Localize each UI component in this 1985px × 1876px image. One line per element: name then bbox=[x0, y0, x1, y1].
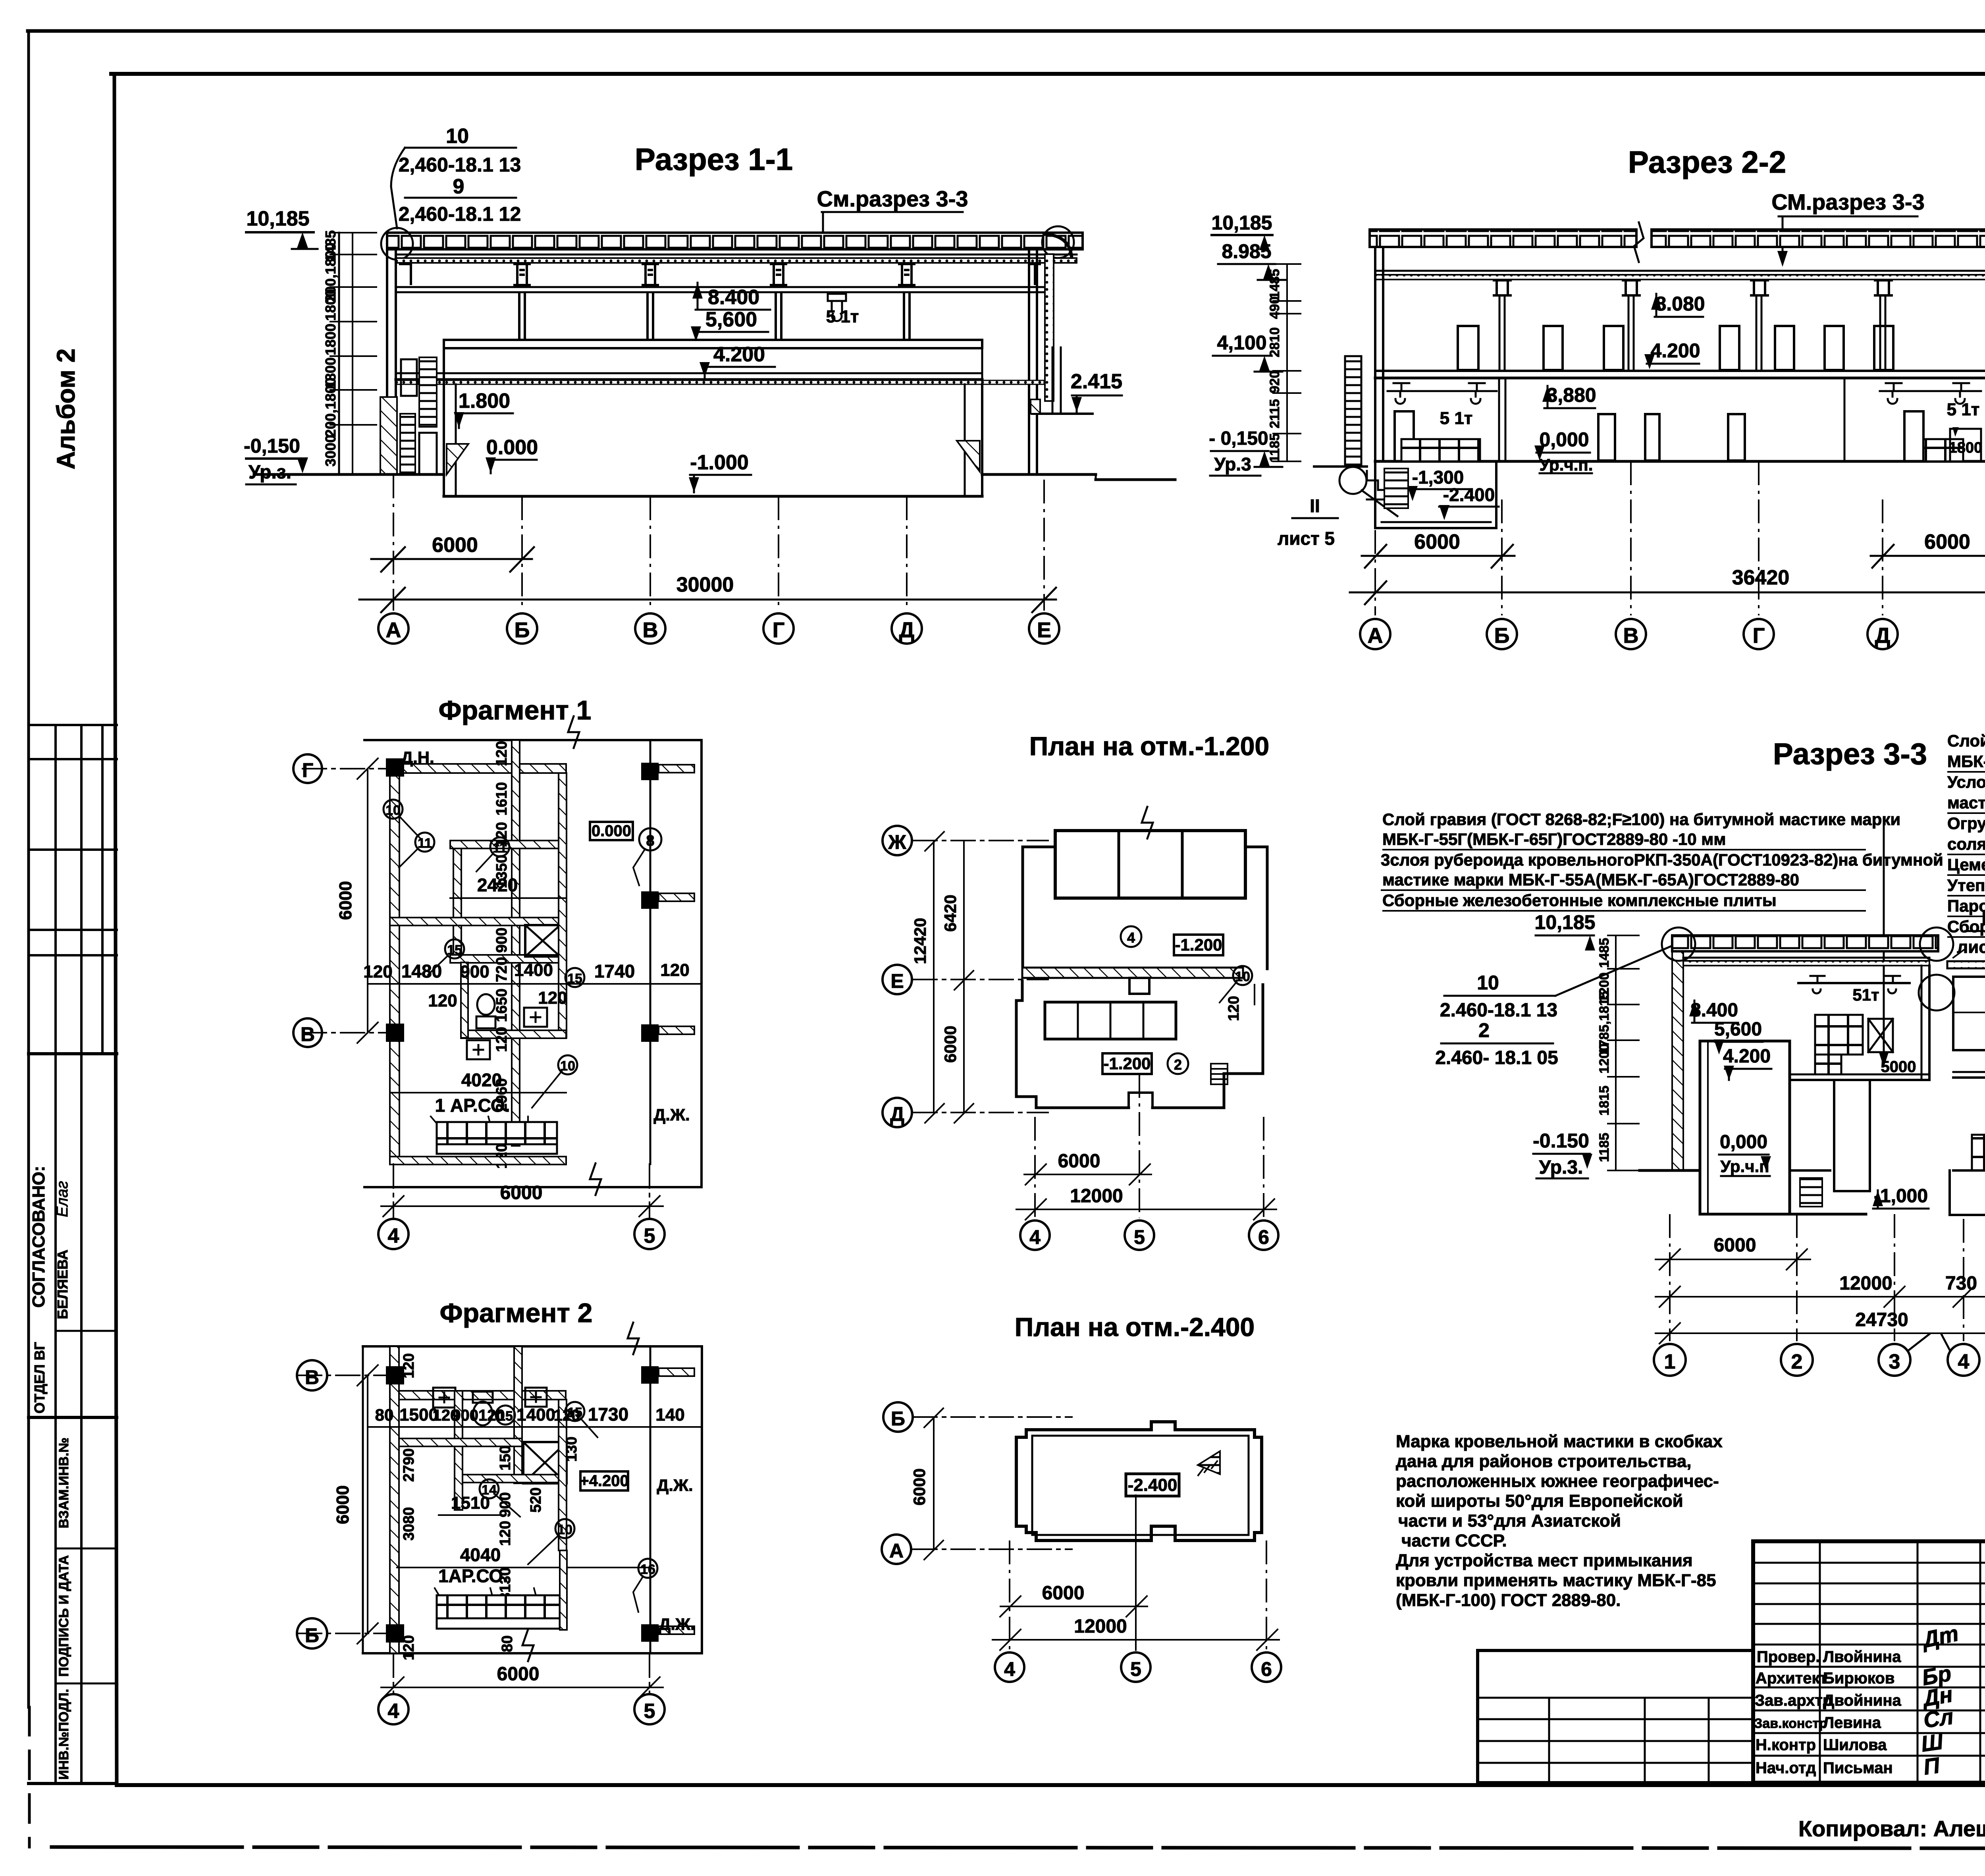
callout circle 11 b bbox=[490, 837, 509, 856]
interior columns bbox=[519, 292, 910, 341]
svg-text:2,460-18.1 13: 2,460-18.1 13 bbox=[399, 154, 521, 176]
crane rail right bay bbox=[1880, 383, 1981, 404]
svg-text:Сл: Сл bbox=[1922, 1704, 1955, 1733]
svg-text:3080: 3080 bbox=[401, 1507, 417, 1541]
axis E bbox=[913, 979, 1048, 980]
stair hatch symbol bbox=[1198, 1451, 1220, 1474]
upper storey columns at grid lines bbox=[1499, 296, 1885, 371]
svg-text:15: 15 bbox=[498, 1409, 513, 1424]
grid circle 1 bbox=[1654, 1344, 1686, 1376]
svg-text:2.415: 2.415 bbox=[1071, 370, 1122, 393]
platform 2.415 bbox=[1032, 413, 1093, 415]
framed label -1.200 upper bbox=[1174, 935, 1223, 955]
rotated dims left bbox=[401, 1353, 580, 1660]
svg-text:1350: 1350 bbox=[493, 855, 510, 889]
svg-text:0,000: 0,000 bbox=[1720, 1132, 1767, 1153]
vertical dim chain 12420 bbox=[933, 841, 935, 1112]
svg-text:Ш: Ш bbox=[1919, 1729, 1945, 1756]
svg-text:Д: Д bbox=[1875, 624, 1890, 648]
svg-text:4: 4 bbox=[388, 1700, 399, 1723]
svg-text:Б: Б bbox=[305, 1624, 319, 1647]
svg-text:Б: Б bbox=[515, 618, 530, 642]
svg-text:1800: 1800 bbox=[322, 289, 339, 321]
svg-text:150: 150 bbox=[497, 1445, 514, 1470]
svg-text:соляровом масле: соляровом масле bbox=[1947, 835, 1985, 853]
svg-text:Д.Н.: Д.Н. bbox=[401, 748, 434, 767]
svg-text:3: 3 bbox=[1889, 1350, 1900, 1373]
ground line left bbox=[254, 473, 444, 476]
callout circle 15 a bbox=[445, 939, 464, 958]
F2 bbox=[297, 1298, 702, 1724]
svg-text:6000: 6000 bbox=[497, 1664, 540, 1685]
svg-text:3,880: 3,880 bbox=[1546, 384, 1596, 406]
grid circle A bbox=[1360, 619, 1390, 649]
svg-text:2.460-18.1 13: 2.460-18.1 13 bbox=[1440, 1000, 1557, 1021]
grid circle 5 bbox=[634, 1219, 665, 1249]
detail circle II bbox=[1339, 467, 1366, 494]
svg-text:6000: 6000 bbox=[1714, 1235, 1756, 1256]
grid circle 5 bbox=[634, 1694, 665, 1724]
grid circle 4 bbox=[1020, 1220, 1050, 1250]
main horizontal dim line bbox=[368, 983, 701, 985]
wall stubs right bbox=[659, 765, 694, 773]
svg-text:8.400: 8.400 bbox=[708, 286, 759, 309]
svg-text:490: 490 bbox=[1267, 297, 1282, 319]
right column line bbox=[649, 1346, 651, 1653]
sink 2 bbox=[467, 1040, 490, 1059]
left vertical dim bbox=[367, 1375, 368, 1633]
svg-text:15: 15 bbox=[447, 943, 462, 958]
svg-text:-1.200: -1.200 bbox=[1175, 935, 1222, 954]
ceiling line hall bbox=[1683, 957, 1929, 959]
svg-text:2,460-18.1 12: 2,460-18.1 12 bbox=[399, 203, 521, 225]
svg-text:5: 5 bbox=[1134, 1226, 1145, 1248]
axis V line bbox=[298, 1375, 401, 1376]
svg-text:Пароизоляция-обмазка горячим б: Пароизоляция-обмазка горячим битумом за … bbox=[1947, 897, 1985, 915]
svg-text:5: 5 bbox=[1130, 1658, 1141, 1680]
TITLEBLOCK bbox=[1478, 1541, 1985, 1843]
svg-text:30000: 30000 bbox=[676, 573, 734, 596]
grid circle G bbox=[1744, 619, 1774, 649]
left dim chain bbox=[338, 233, 340, 474]
svg-text:Утеплитель-пенобетону=300 кг/м: Утеплитель-пенобетону=300 кг/м3-100 мм bbox=[1947, 876, 1985, 895]
svg-text:8.080: 8.080 bbox=[1655, 293, 1705, 315]
right wall dotted strip bbox=[1045, 254, 1054, 401]
callout circle 10 b bbox=[558, 1055, 577, 1074]
right hall boundary column bbox=[1928, 966, 1931, 1080]
framed label -1.200 lower bbox=[1102, 1053, 1152, 1074]
svg-text:Ур.ч.п.: Ур.ч.п. bbox=[1540, 455, 1593, 474]
svg-text:0.000: 0.000 bbox=[486, 436, 538, 459]
svg-text:Н.контр: Н.контр bbox=[1756, 1736, 1816, 1754]
svg-text:-1.200: -1.200 bbox=[1103, 1054, 1151, 1073]
svg-text:12420: 12420 bbox=[911, 918, 929, 964]
callout circle 4 room bbox=[1121, 926, 1141, 947]
ground line right bbox=[982, 473, 1096, 476]
partition vertical mid bbox=[514, 1346, 522, 1483]
grid axis dash-dot lines bbox=[393, 474, 1044, 611]
vertical dim labels along partition bbox=[493, 741, 510, 1168]
central tank tall bbox=[1700, 1041, 1790, 1214]
svg-text:Б: Б bbox=[891, 1407, 905, 1430]
left wall A bbox=[1374, 247, 1376, 461]
svg-text:МБК-Г-55Г(МБК-Г-65Г)ГОСТ2889-8: МБК-Г-55Г(МБК-Г-65Г)ГОСТ2889-80 -10 мм bbox=[1382, 830, 1726, 848]
svg-text:6000: 6000 bbox=[432, 534, 478, 557]
svg-text:140: 140 bbox=[655, 1405, 684, 1425]
svg-text:6000: 6000 bbox=[500, 1182, 543, 1203]
svg-text:Сборные железобетонные плиты: Сборные железобетонные плиты bbox=[1947, 917, 1985, 936]
left roof note text block bbox=[1381, 810, 1943, 910]
ground floor doors bbox=[1598, 414, 1745, 461]
inner frame left bbox=[114, 74, 117, 1785]
svg-text:Е: Е bbox=[1037, 618, 1051, 642]
svg-text:В: В bbox=[1623, 624, 1639, 648]
axis G line bbox=[303, 768, 401, 769]
plan cut boundary right bbox=[700, 740, 703, 1187]
svg-text:2: 2 bbox=[1478, 1019, 1490, 1041]
grid circle G bbox=[293, 754, 322, 783]
top wall hatched bbox=[399, 1391, 566, 1400]
wc wall bbox=[455, 1391, 463, 1510]
framed label +4.200 bbox=[580, 1471, 628, 1490]
svg-text:Е: Е bbox=[890, 970, 904, 992]
svg-text:Д: Д bbox=[899, 618, 914, 642]
ceiling double line bbox=[1375, 270, 1985, 272]
svg-text:16: 16 bbox=[640, 1562, 655, 1577]
svg-text:5 1т: 5 1т bbox=[1440, 409, 1473, 428]
tank inner wall lines bbox=[1707, 1041, 1709, 1214]
svg-text:12000: 12000 bbox=[1074, 1616, 1127, 1637]
svg-text:4: 4 bbox=[1127, 929, 1135, 946]
left stair block bbox=[400, 414, 415, 475]
grid circle V bbox=[1616, 619, 1646, 649]
svg-text:12000: 12000 bbox=[1070, 1186, 1123, 1207]
svg-text:900: 900 bbox=[497, 1492, 514, 1517]
svg-text:расположенных южнее географи: расположенных южнее географичес- bbox=[1396, 1471, 1719, 1491]
heat exchanger grid right bbox=[1923, 439, 1963, 461]
basin bottom bbox=[444, 495, 982, 498]
svg-text:План на отм.-2.400: План на отм.-2.400 bbox=[1015, 1312, 1255, 1342]
svg-text:6000: 6000 bbox=[336, 881, 355, 920]
partition under shaft bbox=[450, 955, 566, 963]
upper hall outline bbox=[1023, 847, 1267, 969]
lower hall outline bbox=[1016, 981, 1263, 1108]
svg-text:120: 120 bbox=[428, 991, 457, 1010]
outside stair tower left bbox=[1345, 356, 1361, 467]
svg-text:6000: 6000 bbox=[910, 1468, 929, 1505]
svg-text:3000: 3000 bbox=[322, 435, 339, 467]
svg-text:2: 2 bbox=[1174, 1057, 1182, 1073]
svg-text:Двойнина: Двойнина bbox=[1823, 1692, 1901, 1709]
svg-text:2810: 2810 bbox=[1267, 327, 1282, 357]
svg-text:БЕЛЯЕВА: БЕЛЯЕВА bbox=[54, 1249, 71, 1319]
S33 bbox=[1381, 731, 1985, 1376]
svg-text:План на отм.-1.200: План на отм.-1.200 bbox=[1029, 731, 1269, 761]
grid circle 5 bbox=[1121, 1652, 1151, 1682]
right wall column E bbox=[1028, 249, 1030, 474]
svg-text:1740: 1740 bbox=[594, 961, 635, 981]
svg-text:1485: 1485 bbox=[1267, 269, 1282, 299]
svg-text:Сборные железобетонные комплек: Сборные железобетонные комплексные плиты bbox=[1382, 891, 1777, 910]
grid circle 4 bbox=[378, 1219, 409, 1249]
vertical dim 6000 bbox=[933, 1417, 935, 1549]
plan cut boundary right bbox=[701, 1346, 703, 1653]
central partition wall bbox=[512, 740, 520, 841]
partial wall right of radiators bbox=[560, 1550, 567, 1630]
radiator grid low bldg bbox=[1972, 1135, 1985, 1170]
diagonal braces right of grid bbox=[1868, 1019, 1893, 1052]
left vertical dim bbox=[367, 769, 368, 1033]
svg-text:1.800: 1.800 bbox=[459, 389, 510, 413]
axis B bbox=[913, 1416, 1072, 1418]
svg-text:- 0,150: - 0,150 bbox=[1209, 428, 1268, 449]
floor 4.200 double line bbox=[1375, 370, 1985, 372]
left wall bbox=[386, 234, 388, 474]
svg-text:0,000: 0,000 bbox=[1539, 428, 1589, 451]
callout circle 10 bbox=[384, 800, 403, 819]
ceiling double line bbox=[396, 254, 1077, 256]
grid circle 4 bbox=[995, 1652, 1024, 1682]
axes dash-dot bbox=[1670, 1214, 1985, 1341]
outer border bottom bbox=[52, 1847, 1985, 1849]
svg-text:Д.Ж.: Д.Ж. bbox=[657, 1476, 693, 1494]
svg-text:4.200: 4.200 bbox=[1650, 339, 1700, 362]
axis V line bbox=[303, 1032, 401, 1033]
top towers block bbox=[1055, 831, 1245, 898]
tank outline inner bbox=[1032, 1436, 1249, 1535]
axis verticals bbox=[1010, 1541, 1266, 1650]
svg-text:1650: 1650 bbox=[493, 989, 510, 1022]
svg-text:6000: 6000 bbox=[1058, 1151, 1100, 1172]
svg-text:4: 4 bbox=[1004, 1658, 1015, 1680]
svg-text:Фрагмент 1: Фрагмент 1 bbox=[439, 695, 592, 725]
svg-text:10: 10 bbox=[446, 125, 469, 148]
mid floor low bldg bbox=[1953, 1071, 1985, 1073]
svg-text:1АР.СО.: 1АР.СО. bbox=[438, 1566, 508, 1586]
svg-text:Ур.3.: Ур.3. bbox=[1539, 1157, 1583, 1178]
svg-text:5 1т: 5 1т bbox=[826, 307, 859, 326]
plan cut boundary top bbox=[364, 739, 701, 741]
top wall hatched bbox=[399, 764, 566, 773]
axis Zh bbox=[913, 840, 1048, 841]
small door box on wall bbox=[1129, 978, 1149, 994]
svg-text:120: 120 bbox=[538, 988, 567, 1008]
svg-text:1815: 1815 bbox=[1597, 1085, 1612, 1116]
svg-text:Г: Г bbox=[1753, 624, 1765, 648]
svg-text:10,185: 10,185 bbox=[1535, 911, 1596, 933]
svg-text:2: 2 bbox=[1791, 1350, 1803, 1373]
right column line with squares bbox=[649, 740, 651, 1164]
svg-text:2790: 2790 bbox=[401, 1448, 417, 1482]
lower hall bottom notch bbox=[1129, 1093, 1152, 1108]
svg-text:Зав.констр: Зав.констр bbox=[1754, 1716, 1827, 1731]
svg-text:130: 130 bbox=[563, 1436, 580, 1461]
svg-text:Огрунтовка раствором битума пя: Огрунтовка раствором битума пятой марки … bbox=[1947, 814, 1985, 833]
truss posts bbox=[399, 264, 1041, 285]
top-left column bbox=[386, 758, 404, 777]
svg-text:1800: 1800 bbox=[1949, 440, 1983, 456]
left columns bbox=[386, 1366, 404, 1384]
grid circle B bbox=[1487, 619, 1517, 649]
main hall left wall hatched bbox=[1672, 946, 1683, 1170]
svg-text:Г: Г bbox=[302, 759, 313, 781]
ventilation shaft with X bbox=[525, 925, 560, 956]
callout circle 8 bbox=[639, 828, 661, 850]
svg-text:1730: 1730 bbox=[588, 1404, 628, 1425]
svg-text:Ур.з.: Ур.з. bbox=[249, 462, 291, 483]
toilet bbox=[473, 1392, 493, 1403]
axes 4 and 5 verticals bbox=[393, 1653, 394, 1692]
left wall hatched bbox=[390, 1346, 399, 1653]
P24 bbox=[882, 1312, 1281, 1682]
grid circle V bbox=[293, 1018, 322, 1047]
svg-text:II: II bbox=[1310, 496, 1320, 516]
svg-text:1800: 1800 bbox=[322, 324, 339, 355]
svg-text:5,600: 5,600 bbox=[705, 308, 757, 331]
floor 0.000 line bbox=[1375, 460, 1985, 463]
svg-text:В: В bbox=[301, 1023, 315, 1045]
F1 bbox=[293, 695, 701, 1249]
svg-text:Провер.: Провер. bbox=[1757, 1648, 1820, 1666]
svg-text:5,600: 5,600 bbox=[1714, 1019, 1762, 1040]
svg-text:4020: 4020 bbox=[461, 1070, 502, 1090]
svg-text:части СССР.: части СССР. bbox=[1401, 1531, 1507, 1550]
svg-text:120: 120 bbox=[660, 960, 689, 980]
svg-text:5000: 5000 bbox=[1881, 1058, 1916, 1076]
plan cut boundary bottom bbox=[363, 1652, 702, 1654]
grid circle 6 bbox=[1252, 1652, 1281, 1682]
svg-text:кровли применять мастику МБК-Г: кровли применять мастику МБК-Г-85 bbox=[1396, 1571, 1716, 1590]
leader line to eaves bbox=[1555, 946, 1672, 996]
outer border left bbox=[27, 31, 30, 1707]
svg-text:120: 120 bbox=[493, 1027, 510, 1052]
svg-text:Нач.отд: Нач.отд bbox=[1756, 1759, 1816, 1777]
equipment right bay: tall unit bbox=[1904, 411, 1923, 461]
sidebar table verticals bbox=[54, 725, 57, 1783]
svg-text:2.460- 18.1 05: 2.460- 18.1 05 bbox=[1435, 1047, 1558, 1068]
crane hook 5 1t bbox=[828, 294, 846, 321]
svg-text:1400: 1400 bbox=[516, 1405, 555, 1425]
brick grid block upper bbox=[1815, 1015, 1863, 1055]
svg-text:Д.Ж.: Д.Ж. bbox=[659, 1615, 695, 1633]
inner cells block bbox=[1045, 1002, 1176, 1039]
callout circle 15 a bbox=[496, 1406, 515, 1425]
basin rim top bbox=[444, 340, 982, 348]
svg-text:мастике марки МБК-Г-55А(МБК-Г-: мастике марки МБК-Г-55А(МБК-Г-65А) ГОСТ2… bbox=[1947, 793, 1985, 812]
callout circle 11 a bbox=[415, 833, 434, 852]
svg-text:Марка кровельной мастики в ск: Марка кровельной мастики в скобках bbox=[1396, 1432, 1723, 1451]
svg-text:-1.000: -1.000 bbox=[690, 451, 748, 474]
eaves circle left bbox=[1662, 927, 1695, 961]
left auxiliary table bbox=[1478, 1650, 1753, 1783]
inner frame top bbox=[111, 72, 1985, 76]
svg-text:МБК-Г-55Г(МБК-Г-65Г)ГОСТ2889-8: МБК-Г-55Г(МБК-Г-65Г)ГОСТ2889-80-10 мм bbox=[1947, 752, 1985, 771]
wc enclosure walls bbox=[461, 962, 468, 1038]
framed label 0.000 bbox=[590, 822, 633, 840]
svg-text:11: 11 bbox=[418, 836, 432, 851]
vertical dim chain 6420/6000 bbox=[963, 841, 965, 1112]
outer border top bbox=[28, 29, 1985, 33]
grid circle 4 bbox=[1948, 1344, 1979, 1376]
callout circle 2 room bbox=[1168, 1053, 1188, 1074]
svg-text:0.000: 0.000 bbox=[592, 822, 631, 840]
roof break marks bbox=[1634, 222, 1644, 262]
sidebar table horizontals bbox=[29, 724, 117, 726]
svg-text:520: 520 bbox=[528, 1487, 544, 1512]
note leader verticals bbox=[1883, 818, 1885, 1056]
svg-text:8.985: 8.985 bbox=[1222, 240, 1271, 262]
svg-text:-0,150: -0,150 bbox=[244, 435, 300, 457]
svg-text:1610: 1610 bbox=[493, 782, 510, 816]
right corridor wall bbox=[559, 773, 567, 1038]
callout circle 10 at wall end bbox=[1233, 966, 1252, 985]
axes dash-dot to circles bbox=[1375, 461, 1985, 615]
svg-text:В: В bbox=[305, 1366, 319, 1388]
svg-text:Ур.ч.п: Ур.ч.п bbox=[1720, 1157, 1769, 1176]
basin walls bbox=[443, 348, 445, 496]
svg-text:1200: 1200 bbox=[1597, 1043, 1612, 1074]
svg-text:120: 120 bbox=[1226, 996, 1242, 1021]
grid circle V bbox=[297, 1360, 327, 1390]
svg-text:6000: 6000 bbox=[1042, 1583, 1085, 1604]
svg-text:Ж: Ж bbox=[888, 831, 906, 853]
basement stair bbox=[1384, 469, 1408, 508]
callout circle 10 bbox=[555, 1519, 574, 1538]
svg-text:лист 5: лист 5 bbox=[1278, 528, 1335, 549]
NOTE bbox=[1396, 1432, 1723, 1610]
svg-text:900: 900 bbox=[460, 962, 489, 981]
svg-text:Шилова: Шилова bbox=[1823, 1736, 1887, 1754]
grid circle 3 bbox=[1879, 1344, 1910, 1376]
svg-text:1: 1 bbox=[1664, 1350, 1676, 1373]
svg-text:920: 920 bbox=[1267, 371, 1282, 393]
svg-text:Д: Д bbox=[890, 1103, 904, 1125]
svg-text:1485: 1485 bbox=[1597, 938, 1612, 968]
svg-text:6: 6 bbox=[1258, 1226, 1269, 1248]
stair symbol bbox=[1211, 1064, 1228, 1084]
hatched wall on axis E bbox=[1022, 968, 1243, 978]
crane beam in hall bbox=[1798, 982, 1910, 984]
svg-text:4: 4 bbox=[1958, 1350, 1970, 1373]
grid circle G bbox=[763, 613, 794, 644]
svg-text:Зав.архтр: Зав.архтр bbox=[1755, 1692, 1832, 1709]
hatched wedge right bbox=[957, 441, 980, 472]
bottom wall hatched bbox=[390, 1157, 566, 1165]
inner frame bottom bbox=[117, 1783, 1985, 1787]
bottom notch bbox=[1151, 1526, 1175, 1541]
svg-text:6000: 6000 bbox=[1924, 530, 1970, 553]
grid circle D bbox=[892, 613, 922, 644]
svg-text:120: 120 bbox=[493, 741, 510, 766]
mid floor 4.200 slab bbox=[396, 372, 982, 374]
callout circle 15 b bbox=[565, 1402, 584, 1421]
left dim chain bbox=[1615, 935, 1617, 1170]
svg-text:ОТДЕЛ ВГ: ОТДЕЛ ВГ bbox=[31, 1342, 48, 1413]
svg-text:1185: 1185 bbox=[1267, 433, 1282, 463]
small vertical wall bbox=[453, 848, 461, 962]
axis B line bbox=[298, 1633, 401, 1634]
svg-text:1 АР.СО.: 1 АР.СО. bbox=[435, 1095, 510, 1116]
svg-text:Фрагмент 2: Фрагмент 2 bbox=[440, 1298, 593, 1328]
outer border left dashed lower bbox=[28, 1707, 31, 1847]
svg-text:10,185: 10,185 bbox=[1212, 212, 1272, 234]
low roof band bbox=[1947, 961, 1985, 968]
basement stair hatch bbox=[1800, 1178, 1822, 1207]
svg-text:4.200: 4.200 bbox=[1723, 1046, 1771, 1067]
S11 bbox=[244, 125, 1175, 644]
svg-text:24730: 24730 bbox=[1855, 1309, 1908, 1330]
svg-text:120: 120 bbox=[401, 1635, 417, 1660]
